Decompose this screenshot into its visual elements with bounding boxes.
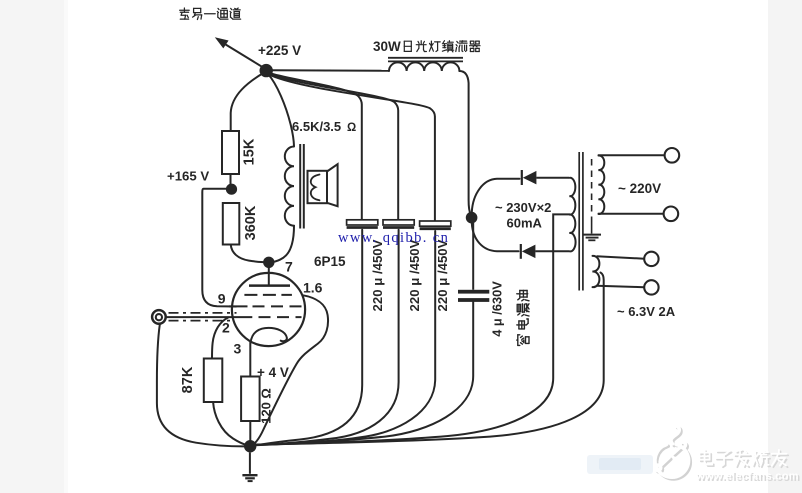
label 去另一通道 (to other channel) [180, 8, 241, 20]
wire arrow to other channel [215, 37, 264, 68]
svg-text:+225 V: +225 V [258, 43, 301, 58]
svg-text:7: 7 [285, 259, 293, 275]
terminal 220V bottom [664, 207, 679, 222]
svg-text:30W: 30W [373, 39, 401, 54]
core power transformer [579, 152, 583, 291]
node +165V junction [226, 184, 237, 195]
node anode pin7 [263, 257, 274, 268]
wire HV center tap to ground bus [253, 214, 571, 444]
wire OPT primary bottom to anode node [273, 226, 295, 262]
wire pin3 cathode lead [249, 342, 251, 377]
svg-text:220 μ /450V: 220 μ /450V [435, 239, 450, 311]
wire input shield dash upper [169, 312, 237, 314]
label 30W日光灯镇流器 [373, 39, 480, 54]
label 15K [242, 138, 258, 165]
wire node to D2 [472, 223, 519, 251]
label + 4 V [257, 365, 289, 380]
svg-text:+165 V: +165 V [167, 169, 209, 184]
label pin 7 [285, 259, 293, 275]
label 6.5K/3.5 Ω [292, 119, 356, 134]
terminal 6.3V top [644, 252, 658, 266]
svg-text:4 μ /630V: 4 μ /630V [490, 281, 505, 337]
wire input terminal to ground bus [157, 324, 245, 446]
wire node to 15K top [231, 72, 265, 132]
svg-text:1.6: 1.6 [303, 280, 323, 296]
capacitor C3 220uF/450V plates [420, 221, 451, 229]
wire +165V left and down to tube pin9 [202, 189, 236, 307]
label 360K [243, 205, 259, 240]
svg-text:120 Ω: 120 Ω [259, 388, 274, 424]
wire 87K to ground node [213, 402, 246, 445]
right grey margin strip [768, 0, 802, 493]
wire 220V top to terminal [598, 154, 665, 156]
wire 6.3V center tap to ground bus [253, 273, 604, 445]
resistor R2 360K [223, 203, 240, 245]
svg-text:220 μ /450V: 220 μ /450V [370, 239, 385, 311]
inductor OPT primary winding [285, 147, 294, 226]
svg-text:~ 230V×2: ~ 230V×2 [495, 200, 551, 215]
terminal 220V top [665, 148, 680, 163]
svg-text:15K: 15K [242, 138, 258, 165]
wire anode lead [268, 267, 270, 285]
wire C2 bottom to ground bus [253, 230, 399, 445]
wire C1 bottom to ground bus [253, 230, 363, 446]
terminal 6.3V bottom [644, 280, 658, 294]
inductor 6.3V filament winding [593, 256, 600, 287]
svg-text:6P15: 6P15 [314, 254, 346, 269]
label ~ 230V×2 [495, 200, 551, 215]
wire fan to C1 [271, 74, 362, 220]
wire fan to C2 [271, 75, 398, 220]
wire 220V bottom to terminal [598, 213, 664, 215]
svg-text:3: 3 [234, 341, 242, 357]
input terminal [152, 310, 166, 324]
node B+ +225V junction [260, 64, 273, 77]
diode D2 [521, 244, 536, 259]
label 220u/450V for C3 [435, 239, 450, 311]
svg-text:9: 9 [218, 290, 226, 306]
wire node down to C4 [472, 223, 474, 290]
resistor R3 87K [204, 359, 223, 403]
resistor R1 15K [222, 131, 239, 174]
label pin 1.6 [303, 280, 323, 296]
wire 360K to anode node [231, 245, 264, 263]
grid g3 dashed row [244, 294, 292, 296]
label ~ 220V [618, 181, 661, 196]
inductor HV secondary winding [570, 178, 576, 252]
wire 6.3V top to terminal [597, 256, 645, 259]
label pin 9 [218, 290, 226, 306]
wire heater 1.6 loop to ground node [255, 295, 329, 443]
label pin 3 [234, 341, 242, 357]
core ballast lamination bars [388, 58, 463, 62]
label 87K [180, 366, 196, 393]
blue watermark www.qqibb.cn [338, 230, 449, 246]
svg-text:60mA: 60mA [507, 216, 543, 231]
svg-text:87K: 87K [180, 366, 196, 393]
svg-text:6.5K/3.5: 6.5K/3.5 [292, 119, 341, 134]
diode D1 [522, 170, 537, 185]
wire pin2 to 87K [212, 318, 228, 359]
label pin 2 [222, 319, 230, 335]
capacitor C1 220uF/450V plates [347, 220, 378, 228]
wire B+ node to OPT primary top [268, 74, 294, 146]
label 220u/450V for C2 [407, 239, 422, 311]
wire 6.3V bottom to terminal [597, 286, 645, 287]
grid g2 dashed row [229, 305, 303, 307]
inductor 220V primary winding [599, 155, 605, 214]
label ~ 6.3V 2A [617, 304, 676, 319]
label 220u/450V for C1 [370, 239, 385, 311]
wire 15K to +165V node [230, 174, 232, 185]
grid g1 dashed row [259, 316, 302, 318]
wire B+ node to ballast [272, 69, 390, 72]
node rectifier output [466, 212, 478, 224]
svg-text:Ω: Ω [347, 122, 356, 134]
wire C3 bottom to ground bus [253, 231, 436, 445]
wire fan to C3 [271, 76, 435, 222]
shield dashed line with ground [583, 159, 601, 240]
label +165 V [167, 169, 209, 184]
node ground junction [244, 440, 256, 452]
wire D2 to HV winding bottom [535, 250, 569, 252]
wire D1 to HV winding top [536, 177, 569, 179]
svg-text:360K: 360K [243, 205, 259, 240]
wire input center conductor [166, 316, 253, 318]
ground symbol [242, 452, 257, 481]
svg-text:www. qqibb. cn: www. qqibb. cn [338, 230, 449, 246]
label 60mA [507, 216, 543, 231]
label 120 ohm [259, 388, 274, 424]
core OPT laminations [300, 144, 304, 229]
svg-text:~ 6.3V 2A: ~ 6.3V 2A [617, 304, 676, 319]
cathode arc [251, 328, 287, 343]
faint blue wiped watermark blotch [587, 455, 653, 474]
wire ballast to rectifier node [459, 71, 470, 214]
wire 120ohm to ground node [249, 421, 251, 441]
svg-text:www.elecfans.com: www.elecfans.com [695, 471, 799, 483]
resistor R4 120 ohm [241, 377, 260, 422]
inductor L1 ballast 30W [389, 62, 459, 71]
wire node to D1 [472, 179, 520, 212]
wire C4 bottom to ground bus [253, 302, 474, 445]
left grey margin strip [0, 0, 68, 493]
svg-text:~ 220V: ~ 220V [618, 181, 661, 196]
wire input shield dash lower [169, 320, 232, 322]
label 6P15 [314, 254, 346, 269]
capacitor C4 4uF/630V plates [458, 290, 489, 302]
capacitor C2 220uF/450V plates [383, 220, 414, 228]
speaker LS1 [308, 164, 338, 206]
svg-text:220 μ /450V: 220 μ /450V [407, 239, 422, 311]
svg-text:+ 4 V: + 4 V [257, 365, 289, 380]
label 4u/630V 油浸电容 [490, 281, 530, 346]
anode plate [249, 284, 290, 287]
tube V1 envelope [232, 273, 305, 346]
label +225 V [258, 43, 301, 58]
elecfans embossed watermark [657, 428, 691, 479]
